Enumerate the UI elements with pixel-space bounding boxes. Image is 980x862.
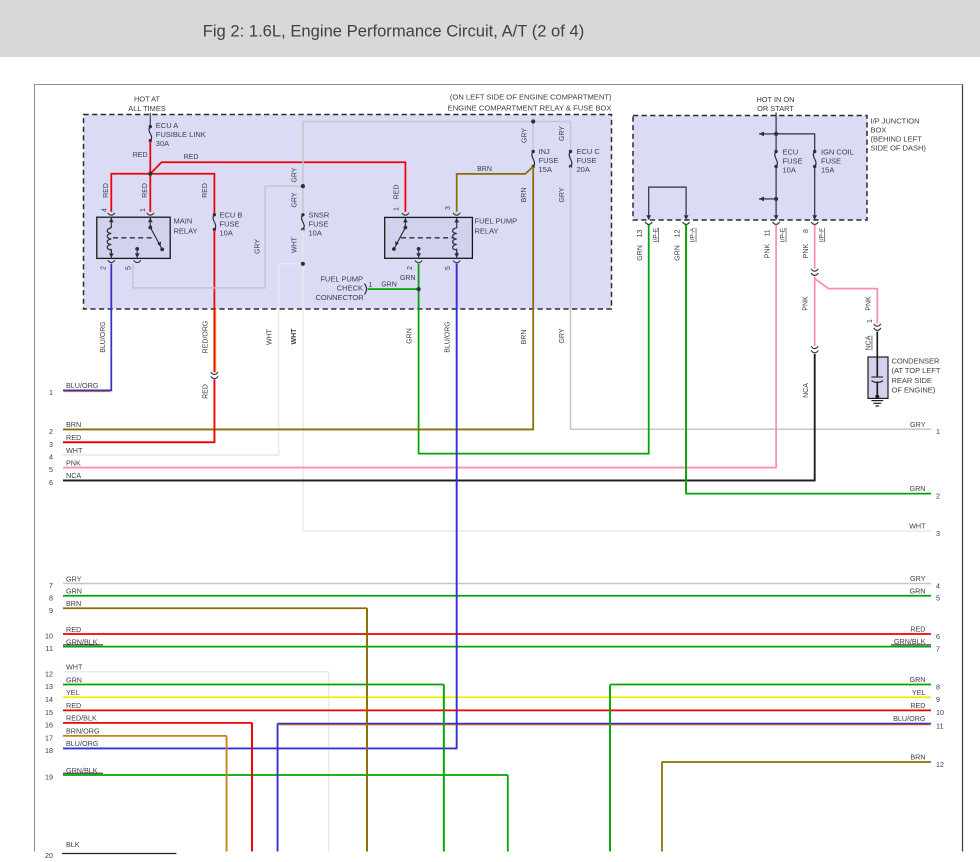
svg-text:11: 11 <box>46 644 53 653</box>
svg-text:I/P-A: I/P-A <box>690 227 697 242</box>
fuel pump relay pin 1 connector <box>402 213 409 215</box>
fuel pump relay pin 2 connector <box>415 260 422 262</box>
inline connector PNK <box>811 269 818 271</box>
wire ECU fuse to pin 11 <box>775 199 777 215</box>
wire PNK branch to condenser <box>815 279 878 324</box>
svg-text:NCA: NCA <box>803 383 810 398</box>
svg-text:1: 1 <box>49 388 53 397</box>
fuel pump relay pin 3 connector <box>453 213 460 215</box>
svg-text:WHT: WHT <box>291 328 298 345</box>
wire GRN right 8 vertical overlay <box>609 685 611 852</box>
engine compartment relay & fuse box <box>84 115 612 310</box>
wire WHT below SNSR fuse <box>302 230 304 265</box>
svg-text:OF ENGINE): OF ENGINE) <box>892 386 936 395</box>
svg-text:6: 6 <box>49 478 53 487</box>
svg-text:1: 1 <box>140 208 147 212</box>
svg-text:(BEHIND LEFT: (BEHIND LEFT <box>871 135 923 144</box>
wire 15 RED <box>63 709 931 711</box>
ground symbol <box>871 400 883 402</box>
svg-text:GRN: GRN <box>407 328 414 344</box>
svg-text:2: 2 <box>407 266 414 270</box>
wire 1 BLU/ORG <box>63 389 111 391</box>
wire 10 RED <box>63 633 931 635</box>
svg-text:1: 1 <box>393 207 400 211</box>
node WHT junction <box>301 262 305 266</box>
wire PNK I/P pin 8 <box>814 225 816 269</box>
main relay pin 4 connector <box>108 213 115 215</box>
svg-text:FUEL PUMP: FUEL PUMP <box>320 275 363 284</box>
svg-text:BLU/ORG: BLU/ORG <box>66 739 99 748</box>
svg-text:PNK: PNK <box>803 296 810 311</box>
wire RED upper rail to fuel pump relay pin 1 <box>150 162 406 174</box>
svg-text:7: 7 <box>936 644 940 653</box>
wire BLU/ORG right 11 vertical <box>277 724 279 852</box>
wire GRN check connector <box>368 288 419 290</box>
wire 8 GRN <box>63 595 931 597</box>
wire BLU/ORG right 11 orange stripe <box>279 724 930 726</box>
wire 12 WHT <box>63 671 329 673</box>
wire GRN to I/P pin 13 <box>419 225 649 454</box>
svg-text:GRY: GRY <box>559 328 566 343</box>
svg-text:SIDE OF DASH): SIDE OF DASH) <box>871 144 927 153</box>
wire RED/BLK 16 vertical <box>251 723 253 852</box>
svg-text:10: 10 <box>936 708 944 717</box>
wire RED lower rail to pin4 and ECU B fuse <box>111 173 216 175</box>
svg-text:CONNECTOR: CONNECTOR <box>315 293 364 302</box>
svg-text:1: 1 <box>936 427 940 436</box>
wire 9 BRN <box>63 607 367 609</box>
wire 7 GRY <box>63 583 931 585</box>
svg-text:RED: RED <box>393 185 400 200</box>
wire PNK I/P pin 11 to wire 5 <box>63 225 776 468</box>
svg-text:4: 4 <box>49 453 53 462</box>
wire 19 GRN/BLK <box>63 774 508 776</box>
right wire 8 GRN <box>610 684 931 686</box>
svg-text:OR START: OR START <box>757 104 794 113</box>
svg-text:PNK: PNK <box>66 458 81 467</box>
svg-text:20A: 20A <box>577 165 590 174</box>
svg-text:10A: 10A <box>220 229 233 238</box>
svg-text:FUSE: FUSE <box>309 220 329 229</box>
wire WHT to right wire 3 <box>303 264 931 531</box>
svg-text:8: 8 <box>936 682 940 691</box>
svg-text:I/P-E: I/P-E <box>780 227 787 242</box>
svg-text:RED: RED <box>66 625 81 634</box>
svg-text:8: 8 <box>803 229 810 233</box>
wire 18 BLU/ORG <box>63 747 457 749</box>
I/P junction box <box>633 116 867 221</box>
svg-text:5: 5 <box>126 266 133 270</box>
svg-text:PNK: PNK <box>764 243 771 258</box>
svg-text:30A: 30A <box>156 139 169 148</box>
svg-text:7: 7 <box>49 581 53 590</box>
wire GRN right 8 vertical <box>609 685 611 852</box>
svg-text:RELAY: RELAY <box>475 227 499 236</box>
svg-text:BRN: BRN <box>521 188 528 203</box>
svg-text:RED: RED <box>202 384 209 399</box>
wire 17 BRN/ORG <box>63 735 227 737</box>
svg-text:I/P JUNCTION: I/P JUNCTION <box>871 117 920 126</box>
svg-text:GRN: GRN <box>637 245 644 261</box>
fuse ECU C 20A <box>569 150 572 153</box>
wire below ECU fuse <box>775 134 777 152</box>
svg-text:WHT: WHT <box>909 522 926 531</box>
wire BLU/ORG right 11 vertical overlay <box>277 724 279 852</box>
svg-text:5: 5 <box>445 266 452 270</box>
svg-text:BLU/ORG: BLU/ORG <box>66 381 99 390</box>
svg-text:MAIN: MAIN <box>174 217 193 226</box>
svg-text:FUSE: FUSE <box>577 156 597 165</box>
wire RED to ECU B fuse <box>213 174 215 215</box>
svg-text:1: 1 <box>867 319 874 323</box>
pin 8 connector <box>811 222 818 224</box>
svg-text:RED: RED <box>66 433 81 442</box>
right wire 12 BRN <box>662 761 931 763</box>
svg-text:ENGINE COMPARTMENT RELAY & FUS: ENGINE COMPARTMENT RELAY & FUSE BOX <box>448 104 612 113</box>
wire GRY top rail <box>303 121 571 123</box>
wire RED drop to main relay pin 1 <box>149 174 151 212</box>
svg-text:I/P-F: I/P-F <box>818 228 825 242</box>
svg-text:IGN COIL: IGN COIL <box>821 148 854 157</box>
fuse INJ 15A <box>532 150 535 153</box>
wire PNK below connector <box>814 277 816 347</box>
svg-text:10: 10 <box>45 632 53 641</box>
wire 4 WHT <box>63 454 279 456</box>
svg-text:NCA: NCA <box>866 335 873 350</box>
svg-text:3: 3 <box>445 206 452 210</box>
pin 12 connector <box>683 222 690 224</box>
fuse ECU 10A <box>774 150 777 153</box>
wire BRN 9 vertical <box>366 608 368 851</box>
title bar <box>0 0 980 57</box>
node GRY rail junction <box>531 119 535 123</box>
wire WHT 12 vertical <box>328 672 330 852</box>
svg-text:HOT IN ON: HOT IN ON <box>756 95 794 104</box>
wire GRY to ECU C fuse <box>570 122 572 152</box>
wire BRN from INJ fuse down to wire 2 <box>63 167 533 430</box>
svg-text:Fig 2: 1.6L, Engine Performanc: Fig 2: 1.6L, Engine Performance Circuit,… <box>203 22 585 41</box>
svg-text:12: 12 <box>936 760 944 769</box>
svg-text:GRN: GRN <box>400 275 416 282</box>
node GRN junction <box>417 287 421 291</box>
condenser capacitor symbol <box>876 357 878 377</box>
svg-text:11: 11 <box>936 721 943 730</box>
fuel pump relay pin 2 contact <box>417 247 421 251</box>
svg-text:WHT: WHT <box>292 236 299 253</box>
svg-text:15A: 15A <box>539 165 552 174</box>
svg-text:5: 5 <box>49 465 53 474</box>
wire 11 GRN/BLK <box>63 646 931 648</box>
svg-text:RED/ORG: RED/ORG <box>202 321 209 354</box>
wire to ground <box>876 382 878 398</box>
svg-text:BLU/ORG: BLU/ORG <box>445 321 452 353</box>
arrow branch left <box>759 133 775 135</box>
svg-text:ECU: ECU <box>783 148 799 157</box>
svg-text:RED: RED <box>103 183 110 198</box>
svg-text:9: 9 <box>936 695 940 704</box>
svg-text:6: 6 <box>936 632 940 641</box>
wire BRN right 12 vertical <box>661 762 663 852</box>
svg-text:RED: RED <box>142 183 149 198</box>
svg-text:(AT TOP LEFT: (AT TOP LEFT <box>892 366 941 375</box>
node junction <box>774 132 778 136</box>
svg-text:WHT: WHT <box>66 446 83 455</box>
svg-text:10A: 10A <box>309 229 322 238</box>
svg-text:GRY: GRY <box>910 420 926 429</box>
main relay pin 2 connector <box>108 260 115 262</box>
wire RED to wire 3 <box>63 380 214 443</box>
condenser box <box>868 357 888 398</box>
wire RED drop to main relay pin 4 <box>110 174 112 212</box>
fuel pump relay switch <box>404 218 406 227</box>
svg-text:RED: RED <box>202 183 209 198</box>
wire RED/ORG below ECU B fuse <box>213 230 215 373</box>
svg-text:GRY: GRY <box>559 126 566 141</box>
wire RED vertical overlay (ECU B to wire 3) <box>213 380 215 443</box>
right wire 11 BLU/ORG <box>278 723 931 725</box>
svg-text:4: 4 <box>101 208 108 212</box>
svg-text:10A: 10A <box>783 166 796 175</box>
svg-text:11: 11 <box>764 229 771 236</box>
svg-text:9: 9 <box>49 606 53 615</box>
wire 16 RED/BLK <box>63 722 252 724</box>
svg-text:GRY: GRY <box>910 574 926 583</box>
relay MAIN RELAY box <box>97 217 170 258</box>
svg-text:GRN/BLK: GRN/BLK <box>894 637 926 646</box>
fuse IGN COIL 15A <box>813 150 816 153</box>
svg-text:GRY: GRY <box>292 167 299 182</box>
wire NCA to wire 6 <box>63 354 815 480</box>
svg-text:12: 12 <box>45 669 53 678</box>
wire GRY drop to SNSR fuse <box>302 122 304 215</box>
svg-text:BOX: BOX <box>871 126 887 135</box>
svg-text:BRN: BRN <box>66 420 81 429</box>
svg-text:FUSE: FUSE <box>783 157 803 166</box>
wire GRY to INJ fuse <box>532 122 534 152</box>
main relay pin 1 connector <box>147 213 154 215</box>
svg-text:INJ: INJ <box>539 147 551 156</box>
pins 13 12 U link <box>649 187 686 214</box>
wire GRN I/P pin 12 to right wire 2 <box>686 225 931 494</box>
svg-text:8: 8 <box>49 593 53 602</box>
inline connector NCA transition <box>811 346 818 348</box>
arrow branch left 2 <box>759 198 775 200</box>
svg-text:GRY: GRY <box>66 574 82 583</box>
svg-text:SNSR: SNSR <box>309 211 330 220</box>
svg-text:RED: RED <box>184 154 199 161</box>
svg-text:(ON LEFT SIDE OF ENGINE COMPAR: (ON LEFT SIDE OF ENGINE COMPARTMENT) <box>450 93 612 102</box>
svg-text:14: 14 <box>45 695 53 704</box>
svg-text:CONDENSER: CONDENSER <box>892 357 941 366</box>
svg-text:GRN: GRN <box>66 675 82 684</box>
node main red junction <box>148 172 152 176</box>
svg-text:RED/BLK: RED/BLK <box>66 714 97 723</box>
svg-text:13: 13 <box>637 230 644 238</box>
svg-text:I/P-E: I/P-E <box>652 227 659 242</box>
svg-text:16: 16 <box>45 721 53 730</box>
wire GRN 13 vertical <box>443 685 445 852</box>
svg-text:RELAY: RELAY <box>174 227 198 236</box>
wire 14 YEL <box>63 696 931 698</box>
svg-text:CHECK: CHECK <box>337 284 363 293</box>
svg-text:BRN/ORG: BRN/ORG <box>66 727 100 736</box>
feed stub wire <box>149 113 151 127</box>
svg-text:GRY: GRY <box>292 192 299 207</box>
svg-text:2: 2 <box>100 266 107 270</box>
svg-text:WHT: WHT <box>66 663 83 672</box>
svg-text:2: 2 <box>936 491 940 500</box>
pin 11 connector <box>773 222 780 224</box>
svg-text:13: 13 <box>45 682 53 691</box>
svg-text:BRN: BRN <box>66 599 81 608</box>
svg-text:ALL TIMES: ALL TIMES <box>128 104 165 113</box>
svg-text:GRY: GRY <box>522 128 529 143</box>
svg-text:RED: RED <box>66 701 81 710</box>
svg-text:FUSE: FUSE <box>220 220 240 229</box>
wire BRN from INJ fuse to fuel pump relay pin 3 <box>457 167 534 212</box>
wire BRN/ORG 17 vertical <box>226 736 228 852</box>
condenser pin connector <box>874 324 881 326</box>
svg-text:RED: RED <box>910 701 925 710</box>
svg-text:ECU C: ECU C <box>577 147 601 156</box>
svg-text:1: 1 <box>369 282 373 289</box>
fusible link ECU A 30A <box>149 125 152 128</box>
svg-text:17: 17 <box>45 734 53 743</box>
svg-text:PNK: PNK <box>866 296 873 311</box>
main relay switch <box>149 218 151 227</box>
wire WHT branch to wire 4 <box>63 264 303 455</box>
wire GRY branch to main relay pin 5 <box>133 186 303 288</box>
wire GRN/BLK 19 vertical <box>507 775 509 852</box>
main relay actuation dashed line <box>113 237 155 239</box>
svg-text:4: 4 <box>936 581 940 590</box>
node junction 2 <box>774 197 778 201</box>
wire 13 GRN <box>63 684 444 686</box>
svg-text:GRN: GRN <box>66 587 82 596</box>
svg-text:RED: RED <box>910 625 925 634</box>
wire RED/BLK 16 vertical overlay <box>251 723 253 852</box>
svg-text:YEL: YEL <box>912 688 926 697</box>
svg-text:BRN: BRN <box>910 753 925 762</box>
svg-text:19: 19 <box>45 773 53 782</box>
svg-text:BRN: BRN <box>521 330 528 345</box>
svg-text:BRN: BRN <box>477 166 492 173</box>
svg-text:3: 3 <box>49 440 53 449</box>
svg-text:FUSE: FUSE <box>539 156 559 165</box>
svg-text:WHT: WHT <box>267 328 274 345</box>
node GRY junction <box>301 184 305 188</box>
svg-text:NCA: NCA <box>66 471 81 480</box>
svg-text:15A: 15A <box>821 166 834 175</box>
svg-text:18: 18 <box>45 746 53 755</box>
svg-text:PNK: PNK <box>803 243 810 258</box>
wire to IGN COIL fuse <box>776 134 815 152</box>
wire BRN/ORG 17 vertical overlay <box>226 736 228 852</box>
svg-text:GRN: GRN <box>910 586 926 595</box>
svg-text:GRN: GRN <box>910 675 926 684</box>
wire GRN vertical overlay (I/P pin 12) <box>685 225 687 494</box>
wire 6 NCA <box>63 479 815 481</box>
feed stub <box>775 113 777 135</box>
svg-text:ECU A: ECU A <box>156 121 179 130</box>
svg-text:GRY: GRY <box>254 239 261 254</box>
wire GRN/BLK black stripe left <box>63 644 103 646</box>
svg-text:2: 2 <box>49 427 53 436</box>
fuel pump relay pin 5 connector <box>453 260 460 262</box>
svg-text:GRN: GRN <box>381 282 397 289</box>
main relay pin 5 contact <box>135 247 139 251</box>
svg-text:GRN: GRN <box>910 484 926 493</box>
wire BLU/ORG fuel pump relay pin 5 to wire 18 <box>63 264 457 749</box>
wire BLU/ORG vertical overlay (fuel pump relay pin 5) <box>456 264 458 749</box>
wire IGN fuse to pin 8 <box>814 167 816 215</box>
wire BLU/ORG main relay pin 2 to wire 1 <box>63 264 111 391</box>
svg-text:12: 12 <box>674 230 681 238</box>
svg-text:BLU/ORG: BLU/ORG <box>893 714 926 723</box>
wire GRN/BLK 19 black stripe <box>63 772 103 774</box>
wire 2 BRN <box>63 428 533 430</box>
wire 3 RED <box>63 441 214 443</box>
main relay pin 5 connector <box>134 260 141 262</box>
svg-text:GRN: GRN <box>674 245 681 261</box>
wire RED fusible link to junction <box>149 141 151 175</box>
pin 13 connector <box>645 222 652 224</box>
wire GRY from ECU C fuse to right wire 1 <box>571 167 932 430</box>
relay FUEL PUMP RELAY box <box>385 217 473 258</box>
svg-text:20: 20 <box>45 851 53 860</box>
fuel pump relay coil <box>456 218 458 227</box>
wire GRN/BLK black stripe right <box>891 644 931 646</box>
svg-text:ECU B: ECU B <box>220 211 243 220</box>
svg-text:15: 15 <box>45 708 53 717</box>
svg-text:RED: RED <box>133 152 148 159</box>
svg-text:FUEL PUMP: FUEL PUMP <box>475 217 518 226</box>
wire BRN 9 vertical overlay <box>366 608 368 851</box>
svg-text:BLU/ORG: BLU/ORG <box>100 321 107 353</box>
wire 20 BLK <box>62 853 176 855</box>
svg-text:YEL: YEL <box>66 688 80 697</box>
svg-text:3: 3 <box>936 529 940 538</box>
svg-text:BLK: BLK <box>66 840 80 849</box>
wire GRN fuel pump relay pin 2 <box>418 264 420 290</box>
main relay coil <box>110 218 112 227</box>
fuel pump relay actuation dashed line <box>401 237 454 239</box>
svg-text:HOT AT: HOT AT <box>134 95 160 104</box>
fuse ECU B 10A <box>213 213 216 216</box>
fuse SNSR 10A <box>301 213 304 216</box>
wire 5 PNK <box>63 467 776 469</box>
wire NCA condenser <box>876 332 878 377</box>
wire GRN 13 vertical overlay <box>443 685 445 852</box>
svg-text:5: 5 <box>936 594 940 603</box>
svg-text:FUSE: FUSE <box>821 157 841 166</box>
inline connector on RED wire <box>211 372 218 374</box>
svg-text:GRY: GRY <box>559 187 566 202</box>
svg-text:FUSIBLE LINK: FUSIBLE LINK <box>156 130 206 139</box>
svg-text:REAR SIDE: REAR SIDE <box>892 376 932 385</box>
